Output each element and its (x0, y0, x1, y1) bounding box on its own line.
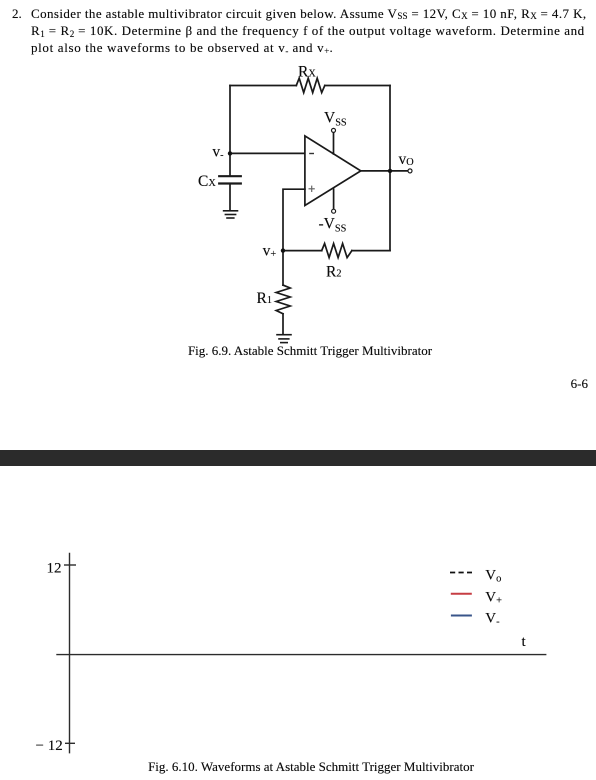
wire right vertical (output feedback) (389, 86, 391, 251)
svg-text:v+: v+ (263, 243, 277, 261)
wire left vertical to inverting node (229, 86, 231, 177)
resistor R1 (276, 285, 290, 314)
tick +12 (64, 564, 76, 566)
wire top left horizontal (230, 85, 296, 87)
svg-text:R2: R2 (326, 263, 342, 280)
svg-text:vO: vO (399, 151, 415, 168)
node vo junction dot (388, 169, 392, 173)
svg-text:RX: RX (298, 64, 316, 81)
waveform graph axes (56, 553, 546, 754)
legend line Vo (dashed) (450, 572, 472, 574)
problem statement text (12, 6, 22, 22)
op-amp U1 (305, 136, 361, 206)
tick -12 (65, 742, 75, 744)
svg-text:VSS: VSS (324, 110, 347, 129)
wire v+ to R2 (283, 250, 322, 252)
wire v+ to R1 (282, 251, 284, 286)
svg-text:-VSS: -VSS (319, 215, 347, 234)
node v+ junction dot (281, 248, 285, 252)
-VSS terminal circle (332, 209, 336, 213)
svg-text:CX: CX (198, 173, 216, 190)
wire output (361, 170, 408, 172)
svg-text:v-: v- (212, 143, 224, 161)
svg-text:V+: V+ (485, 590, 502, 607)
ground (below CX) (224, 211, 238, 218)
wire inverting input (230, 152, 305, 154)
resistor RX (296, 78, 325, 92)
ground (below R1) (277, 335, 291, 343)
capacitor CX (219, 176, 241, 183)
x-axis (56, 654, 546, 656)
svg-text:Vo: Vo (485, 567, 501, 584)
supply -VSS pin (333, 189, 335, 209)
node v- junction dot (228, 151, 232, 155)
VSS terminal circle (332, 128, 336, 132)
op-amp minus pin symbol (309, 153, 314, 155)
resistor R2 (322, 244, 352, 258)
svg-text:V-: V- (485, 610, 500, 627)
svg-text:12: 12 (47, 561, 62, 577)
svg-text:− 12: − 12 (36, 738, 63, 754)
wire R1 to ground (282, 314, 284, 335)
vo terminal circle (408, 169, 412, 173)
legend line V+ (red) (451, 593, 472, 595)
wire capacitor to ground (229, 184, 231, 211)
supply VSS pin (333, 132, 335, 154)
svg-text:R1: R1 (257, 290, 273, 307)
page separator bar (0, 450, 596, 466)
wire R2 to output branch (352, 250, 390, 252)
wire noninverting input (283, 189, 305, 250)
op-amp plus pin symbol (309, 186, 315, 192)
legend line V- (blue) (451, 615, 472, 617)
page number (571, 377, 588, 390)
wire top right horizontal (325, 85, 390, 87)
svg-text:t: t (522, 634, 527, 650)
y-axis (69, 553, 71, 754)
caption Fig 6.10 (13, 760, 596, 773)
caption Fig 6.9 (12, 344, 596, 357)
